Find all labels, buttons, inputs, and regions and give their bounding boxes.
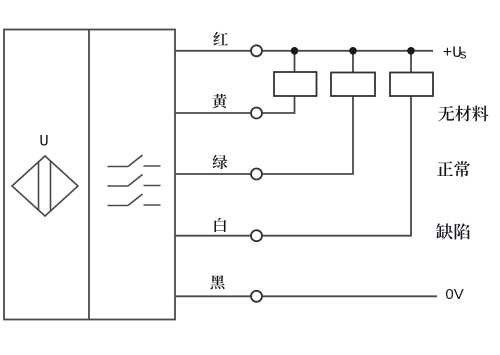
load RL2 stub from rail — [352, 51, 354, 73]
terminal circle (green wire) — [251, 169, 262, 180]
sensor body outline — [4, 30, 175, 320]
label 无材料 (no material) — [438, 106, 488, 122]
load RL3 stub from rail — [410, 51, 412, 73]
wire white (left of terminal) — [175, 235, 251, 237]
junction dot J3 on +Us rail — [407, 47, 415, 55]
load RL3 box — [390, 73, 433, 97]
sensor internal divider — [88, 30, 90, 320]
label 白 (wire color) — [214, 218, 226, 232]
wire yellow to load RL1 — [262, 96, 295, 113]
junction dot J1 on +Us rail — [291, 47, 299, 55]
switch contact S2 — [108, 175, 161, 187]
label 正常 (normal) — [437, 161, 470, 177]
label 缺陷 (defect) — [436, 223, 470, 239]
switch contact S3 — [108, 194, 161, 206]
wire white to load RL3 — [262, 96, 411, 236]
diamond inner line right — [50, 162, 52, 211]
wire black to 0V — [262, 295, 437, 297]
load RL1 box — [274, 72, 317, 96]
junction dot J2 on +Us rail — [349, 47, 357, 55]
terminal circle (red wire) — [251, 45, 262, 56]
diamond inner line left — [38, 162, 40, 210]
wire black (left of terminal) — [175, 295, 251, 297]
wire green to load RL2 — [262, 96, 353, 174]
terminal circle (black wire) — [251, 291, 262, 302]
label 黑 (wire color) — [210, 275, 224, 289]
load RL1 stub from rail — [294, 51, 296, 72]
load RL2 box — [331, 73, 375, 97]
label 红 (wire color) — [213, 32, 228, 46]
wire yellow (left of terminal) — [175, 112, 251, 114]
terminal circle (white wire) — [251, 230, 262, 241]
wire red / +Us rail (right of terminal) — [262, 50, 433, 52]
wire red (left of terminal) — [175, 50, 251, 52]
switch contact S1 — [108, 155, 161, 167]
wire green (left of terminal) — [175, 173, 251, 175]
svg-text:s: s — [459, 47, 467, 62]
terminal circle (yellow wire) — [251, 108, 262, 119]
svg-text:U: U — [39, 132, 48, 150]
label 绿 (wire color) — [213, 155, 228, 169]
svg-text:0V: 0V — [445, 286, 463, 303]
sensor element symbol (diamond) — [12, 156, 78, 216]
label 黄 (wire color) — [212, 94, 227, 108]
